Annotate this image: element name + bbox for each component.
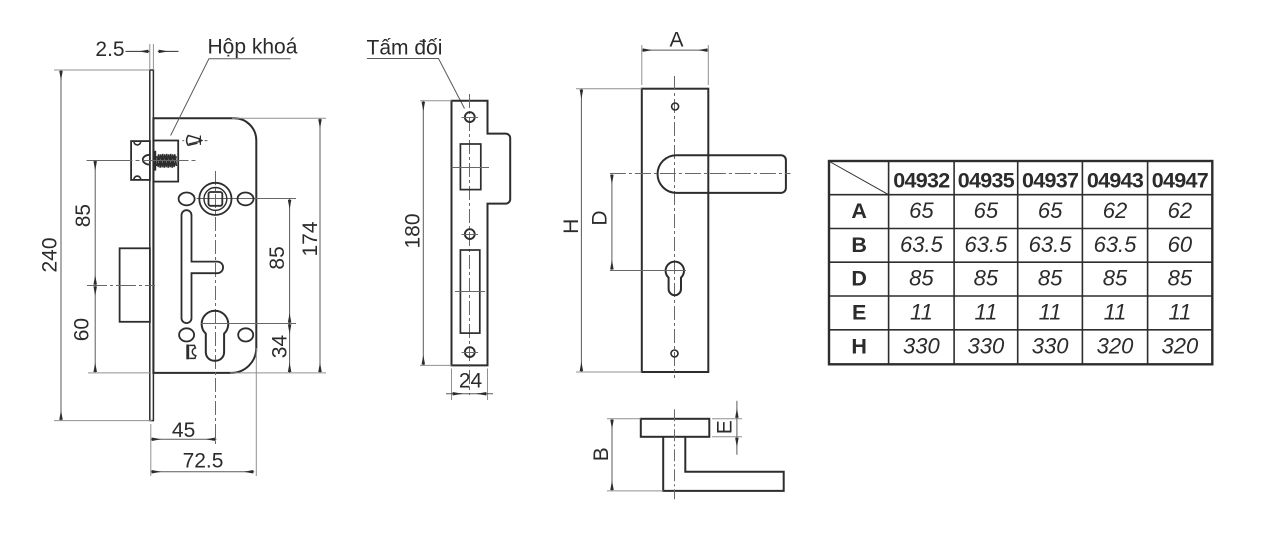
- side view vertical centerline: [674, 409, 676, 499]
- handle plate vertical centerline: [674, 76, 676, 378]
- cone marker centerline dashes: [182, 140, 207, 142]
- svg-text:34: 34: [269, 335, 292, 359]
- dimension H line: [580, 89, 582, 372]
- svg-text:24: 24: [459, 370, 483, 393]
- cone marker lower inner edge: [189, 142, 199, 144]
- stamped mark curl: [189, 345, 196, 358]
- svg-text:320: 320: [1162, 334, 1199, 359]
- case bottom extension line: [230, 372, 326, 374]
- lever handle: [658, 155, 786, 193]
- dimension 85 right line: [289, 199, 291, 324]
- dimension B extensions: [607, 419, 663, 491]
- svg-text:45: 45: [172, 419, 195, 442]
- dimension 60 left line: [94, 286, 96, 373]
- latch cutout centerline: [452, 167, 490, 169]
- svg-text:11: 11: [974, 300, 997, 325]
- follower outer circle: [199, 183, 231, 215]
- svg-text:11: 11: [1039, 300, 1062, 325]
- faceplate (front plate, 2.5 thick): [150, 70, 154, 421]
- latch tongue half-ellipse: [143, 155, 150, 165]
- dimension 174 line: [319, 118, 321, 373]
- svg-text:11: 11: [1168, 300, 1191, 325]
- svg-text:85: 85: [1168, 266, 1193, 291]
- dimension 24 line: [446, 393, 493, 395]
- follower inner circle: [204, 188, 227, 211]
- svg-text:85: 85: [1038, 266, 1063, 291]
- deadbolt: [120, 248, 150, 321]
- dimension A extensions: [642, 45, 709, 85]
- label Hop khoa leader underline: [171, 59, 291, 136]
- top screw hole crosshair: [462, 117, 479, 119]
- cone marker vertical tick: [199, 136, 201, 145]
- bottom screw hole: [465, 347, 475, 357]
- dimension 85 left line: [94, 160, 96, 285]
- deadbolt centerline: [87, 285, 155, 287]
- svg-text:85: 85: [266, 246, 289, 269]
- latch bolt head: [131, 141, 150, 180]
- svg-text:H: H: [851, 335, 866, 359]
- cone marker solid arrow tip: [199, 138, 204, 143]
- strike plate outline with side tab: [452, 101, 511, 366]
- svg-text:11: 11: [910, 300, 933, 325]
- oval hole right of cylinder: [238, 328, 253, 341]
- euro cylinder hole: [202, 311, 229, 361]
- latch cutout: [460, 144, 480, 190]
- svg-text:72.5: 72.5: [183, 450, 224, 473]
- dimension D line: [611, 174, 613, 270]
- table outer border: [829, 161, 1212, 364]
- svg-text:2.5: 2.5: [95, 38, 124, 61]
- svg-text:Tấm đối: Tấm đối: [367, 37, 443, 60]
- dimension E arrow lower: [736, 437, 738, 455]
- strike plate vertical centerline: [469, 94, 471, 395]
- dimension 24 arrow left: [452, 393, 462, 395]
- dimension B line: [611, 419, 613, 491]
- svg-text:65: 65: [974, 198, 999, 223]
- dimension 45 line: [151, 438, 217, 440]
- dimension 240 extension lines: [54, 70, 152, 421]
- latch spring coil return strokes: [157, 154, 177, 167]
- svg-text:85: 85: [974, 266, 999, 291]
- latch head shoulder arc top: [134, 142, 141, 145]
- svg-text:320: 320: [1097, 334, 1134, 359]
- svg-text:65: 65: [1038, 198, 1063, 223]
- T-shaped lever slot: [182, 210, 224, 323]
- svg-text:62: 62: [1168, 198, 1192, 223]
- side view handle profile: [663, 437, 784, 491]
- latch spring box: [153, 141, 178, 182]
- follower square spindle hole: [209, 192, 223, 206]
- dimension 60 extension: [88, 372, 150, 374]
- dimension E extensions: [712, 419, 742, 437]
- svg-text:A: A: [669, 29, 683, 52]
- svg-text:H: H: [560, 219, 583, 234]
- latch spring anchor bar: [153, 151, 156, 171]
- svg-text:85: 85: [1103, 266, 1128, 291]
- label Tam doi leader: [367, 59, 465, 109]
- deadbolt cutout centerline: [455, 291, 485, 293]
- svg-text:04947: 04947: [1152, 168, 1209, 192]
- oval hole left of cylinder: [179, 328, 194, 341]
- svg-text:04935: 04935: [958, 168, 1015, 192]
- deadbolt cutout: [460, 250, 479, 333]
- dimension 180 line: [422, 101, 424, 366]
- oval hole left of follower: [179, 193, 195, 206]
- oval hole right of follower: [238, 193, 254, 206]
- follower horizontal centerline / 85 extension: [197, 198, 297, 200]
- faceplate lower extension: [150, 424, 152, 476]
- svg-text:B: B: [851, 233, 866, 257]
- svg-text:330: 330: [903, 334, 940, 359]
- svg-text:B: B: [590, 447, 613, 461]
- svg-text:180: 180: [402, 213, 425, 248]
- dimension 72.5 line: [151, 471, 254, 473]
- table row lines: [829, 195, 1212, 330]
- dimension A line: [642, 49, 709, 51]
- svg-text:Hộp khoá: Hộp khoá: [208, 36, 298, 59]
- svg-text:04932: 04932: [893, 168, 950, 192]
- dimension 2.5 arrows: [126, 50, 150, 52]
- top screw hole (handle plate): [672, 103, 679, 110]
- dimension E arrow upper: [736, 401, 738, 419]
- case right edge lower extension: [255, 348, 257, 476]
- side view plate edge: [641, 419, 710, 437]
- svg-text:04937: 04937: [1022, 168, 1079, 192]
- svg-text:04943: 04943: [1087, 168, 1144, 192]
- svg-text:A: A: [851, 199, 866, 223]
- svg-text:63.5: 63.5: [1029, 232, 1073, 257]
- latch head shoulder arc bottom: [134, 176, 141, 179]
- svg-text:63.5: 63.5: [900, 232, 944, 257]
- svg-text:60: 60: [1168, 232, 1193, 257]
- latch spring coil: [157, 154, 177, 168]
- latch centerline: [87, 160, 197, 162]
- dimension 24 arrow right: [477, 393, 487, 395]
- dimension E line middle segment: [736, 419, 738, 437]
- handle plate: [642, 89, 709, 372]
- cylinder horizontal centerline / 34 extension: [201, 323, 296, 325]
- svg-text:330: 330: [1032, 334, 1069, 359]
- svg-text:85: 85: [72, 204, 95, 227]
- svg-text:62: 62: [1103, 198, 1127, 223]
- stamped mark bar: [186, 345, 189, 360]
- svg-text:63.5: 63.5: [964, 232, 1008, 257]
- svg-text:E: E: [714, 420, 737, 434]
- bottom screw hole (handle plate): [671, 350, 678, 357]
- svg-text:11: 11: [1104, 300, 1127, 325]
- middle screw hole: [465, 229, 475, 239]
- dimension 240 line: [60, 70, 62, 421]
- dimension 24 extensions: [452, 369, 488, 401]
- euro keyhole (handle plate): [666, 262, 684, 296]
- svg-text:E: E: [852, 301, 866, 325]
- bottom screw hole crosshair: [462, 352, 479, 354]
- svg-text:60: 60: [71, 318, 94, 341]
- case top extension line: [232, 117, 326, 119]
- keyhole horizontal centerline / D extension: [610, 270, 686, 272]
- faceplate extension lines (for 2.5 dim): [150, 44, 154, 70]
- svg-text:330: 330: [968, 334, 1005, 359]
- lever horizontal centerline: [610, 173, 791, 175]
- svg-text:174: 174: [299, 221, 322, 256]
- table column lines: [889, 161, 1148, 364]
- dimension 180 extensions: [420, 101, 452, 366]
- dimension 34 line: [289, 324, 291, 373]
- follower vertical centerline: [215, 171, 217, 445]
- lock case (rounded right corners): [153, 118, 256, 373]
- table diagonal cell line: [830, 162, 889, 195]
- svg-text:85: 85: [909, 266, 934, 291]
- svg-text:240: 240: [38, 237, 61, 272]
- top screw hole: [465, 112, 475, 122]
- svg-text:63.5: 63.5: [1094, 232, 1138, 257]
- svg-text:D: D: [588, 210, 611, 225]
- middle screw hole crosshair: [462, 234, 479, 236]
- svg-text:65: 65: [909, 198, 934, 223]
- svg-text:D: D: [851, 267, 866, 291]
- cone marker (direction symbol): [187, 136, 201, 146]
- dimension H extensions: [576, 89, 642, 372]
